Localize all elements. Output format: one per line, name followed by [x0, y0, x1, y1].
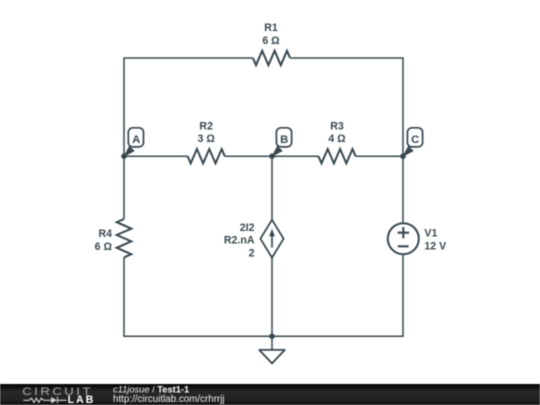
svg-text:A: A [132, 134, 140, 146]
svg-text:3 Ω: 3 Ω [198, 133, 216, 145]
svg-text:6 Ω: 6 Ω [262, 35, 280, 47]
svg-text:c11josue / Test1-1: c11josue / Test1-1 [113, 384, 189, 394]
svg-text:R4: R4 [98, 228, 112, 240]
svg-text:6 Ω: 6 Ω [95, 241, 113, 253]
svg-text:http://circuitlab.com/crhrrjj: http://circuitlab.com/crhrrjj [113, 394, 225, 405]
svg-text:4 Ω: 4 Ω [328, 133, 346, 145]
svg-text:R2.nA: R2.nA [224, 235, 255, 247]
svg-text:R3: R3 [330, 120, 344, 132]
svg-text:12 V: 12 V [424, 240, 446, 252]
svg-text:B: B [280, 134, 288, 146]
svg-text:R1: R1 [264, 22, 278, 34]
svg-text:R2: R2 [199, 120, 213, 132]
svg-text:2: 2 [249, 248, 255, 260]
svg-text:2I2: 2I2 [240, 222, 255, 234]
svg-text:LAB: LAB [68, 394, 96, 405]
svg-text:V1: V1 [424, 228, 437, 240]
svg-text:C: C [411, 134, 419, 146]
